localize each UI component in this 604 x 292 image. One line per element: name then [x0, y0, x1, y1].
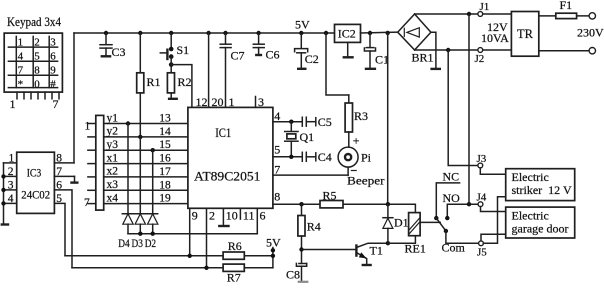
svg-text:1: 1	[85, 121, 91, 133]
wire J1 feed down to NO	[468, 14, 470, 204]
wire row x4 to IC1 pin 19	[104, 203, 188, 205]
ground C2	[297, 68, 307, 70]
wire 5V rail	[74, 32, 335, 34]
svg-text:Electric: Electric	[512, 209, 549, 223]
svg-text:13: 13	[159, 113, 171, 125]
svg-text:Com: Com	[442, 241, 466, 255]
svg-text:1: 1	[18, 37, 24, 49]
svg-text:4: 4	[8, 193, 14, 205]
node pin5 crystal junction	[289, 155, 293, 159]
connector left pin ticks	[88, 124, 96, 204]
svg-text:+: +	[353, 134, 360, 148]
wire row x2 to IC1 pin 17	[104, 176, 188, 178]
wire beeper to pin7 line	[347, 167, 349, 175]
wire diode anode line to IC1 pin6	[128, 233, 257, 235]
capacitor C7	[220, 33, 231, 48]
wire D4 column	[127, 124, 129, 214]
ground C8	[298, 281, 309, 283]
svg-text:3: 3	[258, 95, 264, 109]
node D3 tap on y2	[138, 135, 142, 139]
svg-text:3: 3	[50, 37, 56, 49]
wire BR1 negative to ground	[431, 32, 436, 67]
resistor R5	[320, 201, 343, 208]
node R3 feed rail junction	[324, 31, 328, 35]
node C7 rail junction	[223, 31, 227, 35]
relay coil RE1	[409, 213, 421, 236]
box electric garage door	[506, 207, 575, 238]
svg-text:y2: y2	[107, 126, 119, 138]
node IC3 pin4 junction	[1, 201, 5, 205]
svg-text:Pi: Pi	[361, 151, 372, 165]
svg-text:11: 11	[243, 209, 255, 223]
svg-text:#: #	[50, 78, 56, 90]
node S1 rail junction	[169, 31, 173, 35]
diode D3	[135, 214, 145, 224]
svg-text:8: 8	[274, 190, 280, 204]
wire pivot to Com line	[446, 231, 479, 243]
label Electric garage door	[512, 209, 569, 236]
keypad row wire 1	[8, 46, 57, 48]
IC1 pin11 tick	[239, 208, 241, 219]
IC3 pin1 wire	[4, 162, 17, 164]
svg-text:S1: S1	[177, 43, 190, 57]
capacitor C8 (polarized)	[296, 263, 306, 281]
resistor R3	[345, 95, 352, 132]
IC3 pin4 wire	[4, 202, 17, 204]
svg-text:Electric: Electric	[512, 170, 549, 184]
wire IC3 ground bus	[3, 163, 5, 224]
wire J5 branch to garage door	[481, 234, 506, 241]
node 5V stub R6 junction	[271, 254, 275, 258]
svg-text:17: 17	[159, 166, 171, 178]
svg-text:24C02: 24C02	[21, 190, 50, 202]
keypad row wire 2	[8, 60, 57, 62]
svg-text:3: 3	[8, 179, 14, 191]
svg-text:9: 9	[192, 209, 198, 223]
wire coil bottom to T1 collector	[388, 236, 416, 244]
wire IC1 pin10 ground stub	[222, 208, 224, 225]
wire IC1 pin5 to C4	[273, 156, 302, 158]
svg-text:10VA: 10VA	[481, 31, 509, 45]
keypad key labels	[18, 37, 57, 91]
node pin2 junction	[204, 266, 208, 270]
wire NO contact	[447, 204, 478, 218]
svg-text:19: 19	[159, 193, 171, 205]
relay blade	[436, 218, 446, 231]
IC3 pin7 wire	[54, 175, 74, 177]
keypad connector pins (7 ticks)	[17, 92, 59, 99]
svg-text:15: 15	[159, 139, 171, 151]
svg-text:D4: D4	[118, 238, 130, 250]
wire D2 anode stub	[152, 224, 154, 234]
beeper Pi	[338, 147, 358, 167]
wire IC2 ground stub	[347, 42, 349, 56]
IC3 pin5 wire to R6 line	[54, 203, 65, 255]
svg-text:2: 2	[8, 166, 14, 178]
node C3 rail junction	[104, 31, 108, 35]
svg-text:IC3: IC3	[27, 166, 42, 180]
svg-text:5: 5	[34, 51, 40, 63]
svg-text:7: 7	[18, 65, 24, 77]
transistor T1	[356, 243, 388, 264]
capacitor C1 (polarized)	[364, 33, 375, 68]
svg-text:1: 1	[229, 95, 235, 109]
wire row y2 to IC1 pin 14	[104, 136, 188, 138]
resistor R2	[167, 73, 174, 93]
resistor R7	[223, 264, 244, 271]
wire J3 to striker	[480, 168, 505, 174]
svg-text:R2: R2	[178, 75, 192, 89]
svg-text:F1: F1	[560, 0, 573, 12]
svg-text:5: 5	[56, 193, 62, 205]
svg-text:R6: R6	[228, 239, 242, 253]
node J1 branch junction	[467, 12, 471, 16]
box electric striker	[506, 169, 575, 201]
svg-text:9: 9	[50, 65, 56, 77]
ground IC3 pin7	[70, 181, 78, 183]
diode D1	[383, 204, 393, 243]
svg-text:BR1: BR1	[412, 51, 434, 65]
IC3 pin number labels right	[56, 153, 62, 205]
wire 12V down to relay line	[387, 33, 389, 204]
node 12V drop junction	[386, 31, 390, 35]
svg-text:J1: J1	[480, 1, 490, 13]
svg-text:R1: R1	[147, 75, 161, 89]
svg-text:C2: C2	[305, 52, 319, 66]
svg-text:7: 7	[53, 97, 59, 111]
wire S1 branch to IC1 pin12	[171, 65, 192, 108]
node blade pivot	[444, 229, 448, 233]
keypad column wire 1	[15, 36, 17, 87]
svg-text:IC2: IC2	[338, 27, 356, 41]
wire R3 to beeper	[348, 132, 350, 147]
wire BR1 top to J1	[415, 13, 478, 15]
svg-text:D1: D1	[394, 216, 409, 230]
svg-text:Keypad 3x4: Keypad 3x4	[7, 15, 62, 29]
connector J4	[478, 202, 483, 207]
wire R6 line (IC3 pin5 / IC1 pin9 to 5V)	[65, 255, 273, 257]
ground T1 emitter	[362, 264, 372, 266]
svg-text:C4: C4	[318, 150, 332, 164]
svg-text:R7: R7	[227, 271, 241, 285]
diode cathode bar D4 D3 D2	[122, 213, 157, 215]
diode symbol inside BR1	[404, 28, 419, 37]
svg-text:1: 1	[10, 97, 16, 111]
microcontroller IC1 body	[188, 107, 273, 208]
resistor R4	[298, 204, 305, 236]
node IC3 pin3 junction	[1, 188, 5, 192]
svg-text:10: 10	[226, 209, 238, 223]
svg-text:x2: x2	[107, 166, 119, 178]
node 5V stub top	[271, 248, 275, 252]
connector J2	[478, 48, 483, 53]
wire C7 to IC1 pin1	[225, 48, 227, 108]
svg-text:8: 8	[34, 65, 40, 77]
switch S1	[160, 47, 173, 73]
svg-text:12: 12	[196, 95, 208, 109]
connector J1	[478, 12, 483, 17]
transformer TR	[511, 12, 538, 57]
svg-text:J2: J2	[475, 53, 485, 65]
wire IC1 pin9 down to R6 line	[189, 208, 191, 256]
wire R2 to ground	[170, 93, 172, 98]
node D2 anode junction	[151, 232, 155, 236]
svg-text:TR: TR	[517, 27, 534, 41]
node pin9 junction	[188, 254, 192, 258]
wire D2 column	[152, 150, 154, 214]
wire TR bottom to terminal	[539, 50, 589, 52]
keypad row wire 4	[8, 87, 57, 89]
node R4 top junction	[299, 202, 303, 206]
node NO junction with J1 feed	[467, 202, 471, 206]
wire IC1 pin4 to C5	[273, 121, 302, 123]
node D1 top junction	[386, 202, 390, 206]
svg-text:x3: x3	[107, 179, 119, 191]
svg-text:20: 20	[212, 95, 224, 109]
svg-text:C6: C6	[266, 48, 280, 62]
node D3 anode junction	[138, 232, 142, 236]
node J2 branch junction	[446, 48, 450, 52]
svg-text:C8: C8	[286, 268, 300, 282]
svg-text:x1: x1	[107, 152, 119, 164]
ground IC3	[1, 223, 10, 225]
svg-text:y1: y1	[107, 112, 119, 124]
svg-text:IC1: IC1	[215, 126, 231, 140]
wire J5 branch to striker	[483, 197, 505, 244]
wire rail-end down to IC3 pin8	[73, 33, 75, 163]
ground C3	[101, 55, 112, 57]
node C1 junction	[368, 31, 372, 35]
svg-text:C7: C7	[231, 49, 245, 63]
svg-text:18: 18	[159, 179, 171, 191]
wire R7 line (IC3 pin6 / IC1 pin2 to 5V)	[72, 267, 273, 269]
keypad row wire 3	[8, 74, 57, 76]
connector J5	[479, 241, 484, 246]
connector J3	[478, 163, 483, 168]
wire row y3 to IC1 pin 15	[104, 149, 188, 151]
wire IC2 output to BR1	[361, 31, 398, 34]
wire IC3 pin7 ground stub	[74, 176, 76, 181]
node pin20 rail junction	[206, 31, 210, 35]
diode D2	[148, 214, 158, 224]
wire relay actuator link	[420, 221, 440, 223]
wire 5V stub to R7 line	[272, 248, 274, 268]
svg-text:8: 8	[56, 153, 62, 165]
resistor R1	[137, 73, 144, 93]
svg-text:6: 6	[260, 209, 266, 223]
svg-text:R3: R3	[354, 109, 368, 123]
svg-text:5V: 5V	[295, 18, 310, 32]
svg-text:garage door: garage door	[512, 222, 569, 236]
svg-text:5: 5	[274, 143, 280, 157]
capacitor C5	[302, 117, 316, 126]
wire row x1 to IC1 pin 16	[104, 163, 188, 165]
fuse F1	[556, 13, 577, 18]
label beeper minus	[351, 170, 357, 172]
resistor R6	[223, 252, 244, 259]
svg-text:6: 6	[56, 179, 62, 191]
node R1 rail junction	[138, 31, 142, 35]
wire rail to IC1 pin20	[208, 33, 210, 107]
svg-text:AT89C2051: AT89C2051	[194, 170, 261, 184]
wire R4 to T1 base junction	[301, 236, 303, 263]
wire J1 to TR	[483, 13, 512, 15]
capacitor C3	[100, 33, 112, 55]
node NO contact	[445, 216, 449, 220]
IC3 pin8 wire	[54, 162, 74, 164]
wire IC1 pin6 down to diode line	[256, 208, 258, 233]
svg-text:1: 1	[9, 153, 15, 165]
svg-text:Beeper: Beeper	[347, 174, 385, 188]
connector block keypad header	[96, 115, 104, 210]
wire row y1 to IC1 pin 13	[104, 123, 188, 125]
svg-text:T1: T1	[370, 244, 383, 258]
svg-text:striker 12 V: striker 12 V	[512, 183, 572, 197]
svg-text:2: 2	[34, 37, 40, 49]
wire D3 column	[139, 137, 141, 214]
wire TR to fuse F1	[539, 15, 589, 17]
terminal 230V bottom	[589, 48, 595, 54]
node pin4 crystal junction	[289, 120, 293, 124]
svg-text:C1: C1	[375, 53, 389, 67]
svg-text:7: 7	[56, 166, 62, 178]
svg-text:16: 16	[159, 153, 171, 165]
IC3 pin3 wire	[4, 189, 17, 191]
crystal Q1	[285, 122, 298, 157]
capacitor C4	[302, 152, 316, 161]
wire J2 feed down to J3	[448, 50, 478, 166]
svg-text:*: *	[18, 78, 24, 90]
capacitor C6	[253, 33, 264, 54]
node C2 rail junction	[299, 31, 303, 35]
wire base line to T1	[302, 249, 356, 251]
wire rail down to R3	[326, 33, 349, 95]
ground R2	[168, 98, 178, 100]
svg-text:Q1: Q1	[300, 130, 315, 144]
wire J4 to garage door	[481, 207, 506, 212]
node D4 tap on y1	[126, 121, 130, 125]
label Electric striker	[512, 170, 572, 197]
node T1 collector junction	[386, 241, 390, 245]
node T1 base junction	[299, 247, 303, 251]
svg-text:6: 6	[50, 51, 56, 63]
wire NC contact	[436, 183, 459, 218]
IC1 pin3 tick	[255, 97, 257, 108]
node D2 tap on y3	[151, 148, 155, 152]
ground C1	[365, 68, 376, 70]
svg-text:D2: D2	[145, 238, 157, 250]
svg-text:4: 4	[18, 51, 24, 63]
node C6 rail junction	[256, 31, 260, 35]
terminal 230V top	[589, 13, 595, 19]
diode D4	[123, 214, 133, 224]
ground C6	[255, 54, 262, 56]
wire IC1 pin2 down to R7 line	[206, 208, 208, 267]
capacitor C2 (polarized)	[295, 33, 308, 68]
wire IC1 pin8 / R5 line to relay coil	[273, 204, 416, 212]
ground IC1 pin10	[218, 225, 230, 227]
svg-text:7: 7	[84, 197, 90, 209]
svg-text:2: 2	[209, 209, 215, 223]
keypad column wire 2	[32, 36, 34, 87]
svg-text:J5: J5	[477, 247, 487, 259]
wire row x3 to IC1 pin 18	[104, 189, 188, 191]
node NC contact	[434, 216, 438, 220]
svg-text:x4: x4	[107, 192, 119, 204]
svg-text:R4: R4	[307, 220, 321, 234]
IC3 pin6 wire to R7 line	[54, 190, 72, 268]
wire D4 anode stub	[127, 224, 129, 234]
svg-text:D3: D3	[132, 238, 144, 250]
wire rail to R1	[139, 33, 141, 73]
wire IC1 pin7 to beeper	[273, 174, 348, 176]
ground IC2	[343, 56, 354, 58]
svg-text:C5: C5	[318, 115, 332, 129]
svg-text:0: 0	[34, 78, 40, 90]
wire R1 to y2 row (D3 column upper)	[139, 93, 141, 137]
bridge rectifier BR1	[398, 14, 431, 50]
svg-text:RE1: RE1	[405, 242, 426, 256]
eeprom IC3 body	[17, 152, 55, 213]
wire BR1 bottom to J2	[415, 49, 478, 51]
svg-text:230V: 230V	[577, 26, 604, 40]
svg-text:C3: C3	[112, 45, 126, 59]
keypad KP1 body	[4, 33, 62, 92]
wire rail to S1	[170, 33, 172, 49]
op-amp/regulator IC2	[335, 24, 361, 42]
svg-text:NC: NC	[443, 170, 460, 184]
keypad column wire 3	[48, 36, 50, 87]
svg-text:14: 14	[159, 126, 171, 138]
wire J2 to TR	[483, 49, 512, 51]
ground BR1	[430, 68, 441, 70]
node IC3 pin2 junction	[1, 174, 5, 178]
svg-text:y3: y3	[107, 139, 119, 151]
wire D3 anode stub	[139, 224, 141, 234]
IC3 pin2 wire	[4, 175, 17, 177]
IC3 pin number labels left	[8, 153, 15, 205]
svg-text:NO: NO	[443, 191, 461, 205]
